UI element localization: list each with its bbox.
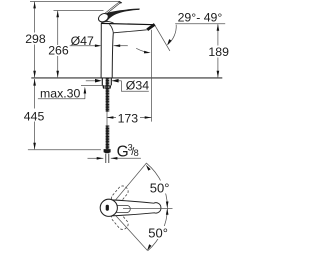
body left edge — [100, 23, 102, 77]
dimension 189 line — [217, 24, 219, 77]
angle arc — [168, 25, 177, 45]
arrow 266 top — [56, 11, 59, 18]
extension line lever closed height — [54, 10, 104, 12]
swing arc lower — [148, 208, 168, 251]
swing ray upper — [115, 163, 147, 201]
arrow 298 top — [33, 2, 36, 9]
extension line top (lever raised height) — [30, 0, 120, 2]
spout top edge — [101, 23, 154, 24]
arrow at spout vertical (angle) — [144, 51, 151, 54]
svg-text:8: 8 — [134, 148, 139, 158]
svg-text:173: 173 — [118, 112, 139, 126]
arrowhead angle arc end — [167, 39, 171, 45]
arrow Ø34 right — [112, 79, 119, 83]
lever (closed, dark) — [101, 9, 140, 24]
threaded rod lower — [106, 125, 110, 149]
angle ray from spout tip — [155, 26, 170, 51]
dome under lever — [101, 21, 114, 23]
arrows — [33, 2, 219, 160]
swing ray lower — [115, 214, 148, 250]
svg-text:298: 298 — [25, 32, 46, 46]
svg-text:50°: 50° — [150, 180, 170, 195]
plan centerline — [123, 208, 173, 210]
arrow 445 bottom — [33, 143, 36, 150]
max.30 underline and riser — [38, 93, 85, 99]
body joint curve — [109, 24, 113, 33]
spout underside — [113, 30, 147, 33]
white gaps behind texts on lines — [24, 33, 228, 240]
arrow max.30 up — [84, 87, 87, 94]
dimension line 173 — [107, 117, 116, 119]
swing arc upper — [147, 163, 168, 207]
dimension line G3/8 with underline — [88, 157, 104, 159]
counter bottom line — [81, 84, 104, 86]
arrow 189 top — [217, 24, 220, 31]
arrow 173 right — [145, 116, 152, 119]
pivot circle — [100, 199, 117, 216]
svg-text:189: 189 — [208, 45, 229, 59]
lever inner detail — [113, 205, 131, 212]
svg-text:266: 266 — [48, 44, 69, 58]
dimension line Ø47 — [70, 45, 96, 47]
lever back loop — [97, 12, 110, 24]
svg-text:29°- 49°: 29°- 49° — [178, 10, 223, 24]
svg-text:50°: 50° — [148, 226, 168, 241]
arrowhead arc upper end — [146, 165, 151, 171]
dimension line Ø34 with label bracket — [86, 80, 96, 82]
G3/8 fitting — [104, 149, 111, 153]
arrow 298 bottom — [33, 71, 36, 78]
dashed lever position +50 — [110, 184, 130, 205]
arrow Ø47 left — [95, 44, 102, 47]
arrow 189 bottom — [217, 71, 220, 78]
rod centerline gap — [106, 112, 108, 126]
arrow 445 top — [33, 79, 36, 86]
dimension 445 line — [34, 79, 36, 149]
body right edge — [112, 33, 113, 78]
29-49 underline — [175, 23, 225, 25]
arrow Ø34 left — [95, 79, 102, 83]
svg-text:445: 445 — [24, 109, 45, 123]
dimension 266 line — [57, 11, 59, 78]
hose end extension line — [28, 149, 101, 151]
svg-text:max.30: max.30 — [40, 87, 80, 101]
raised lever outline — [102, 2, 121, 17]
arrow 173 left — [107, 116, 114, 119]
flow-angle leader (curved tail arrow at vertical line) — [136, 48, 145, 52]
pivot slot — [106, 205, 109, 211]
deck line — [31, 77, 222, 79]
spout tip vertical extension line — [151, 30, 153, 122]
svg-text:Ø34: Ø34 — [126, 79, 149, 93]
dimension 298 line — [34, 2, 36, 78]
mounting nut — [102, 85, 111, 88]
svg-text:Ø47: Ø47 — [71, 34, 94, 48]
arrow G3/8 right — [111, 157, 118, 160]
arrowhead arc lower end — [147, 244, 151, 250]
arrow Ø47 right — [114, 44, 121, 47]
dashed lever position -50 — [110, 210, 130, 231]
bowtie arrows at centerline — [166, 202, 169, 209]
spout end face (dark band) — [147, 24, 155, 30]
raised lever tip tick — [118, 1, 122, 4]
arrow 266 bottom — [56, 71, 59, 78]
threaded rod upper — [106, 78, 110, 111]
lever plan outline — [111, 200, 161, 216]
shank walls — [101, 78, 103, 85]
arrow G3/8 left — [97, 157, 104, 160]
hose walls — [105, 154, 107, 164]
